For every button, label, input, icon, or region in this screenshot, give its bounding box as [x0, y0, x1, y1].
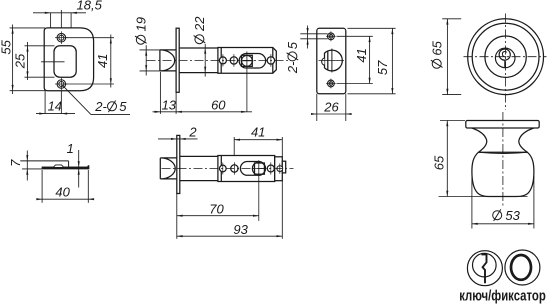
svg-text:22: 22	[192, 16, 207, 32]
svg-text:41: 41	[251, 124, 265, 139]
svg-text:19: 19	[133, 17, 148, 31]
svg-text:25: 25	[13, 53, 28, 69]
svg-text:2-: 2-	[94, 99, 107, 114]
svg-text:41: 41	[354, 48, 369, 62]
svg-text:13: 13	[162, 98, 177, 113]
svg-text:41: 41	[95, 54, 110, 68]
svg-text:14: 14	[48, 98, 62, 113]
svg-text:40: 40	[55, 184, 70, 199]
svg-text:ключ/фиксатор: ключ/фиксатор	[459, 287, 546, 304]
svg-text:65: 65	[432, 155, 447, 170]
svg-text:2: 2	[188, 125, 197, 140]
svg-text:1: 1	[67, 141, 74, 156]
svg-text:2-: 2-	[285, 61, 300, 74]
svg-text:7: 7	[8, 159, 23, 167]
svg-text:5: 5	[119, 99, 127, 114]
svg-text:93: 93	[233, 222, 248, 237]
svg-text:26: 26	[323, 99, 339, 114]
svg-text:57: 57	[375, 60, 390, 75]
svg-text:60: 60	[211, 98, 226, 113]
svg-text:65: 65	[429, 40, 444, 55]
svg-text:5: 5	[285, 41, 300, 49]
svg-text:55: 55	[0, 39, 14, 54]
svg-text:18,5: 18,5	[77, 0, 103, 13]
svg-text:53: 53	[505, 208, 520, 223]
svg-text:70: 70	[209, 201, 224, 216]
